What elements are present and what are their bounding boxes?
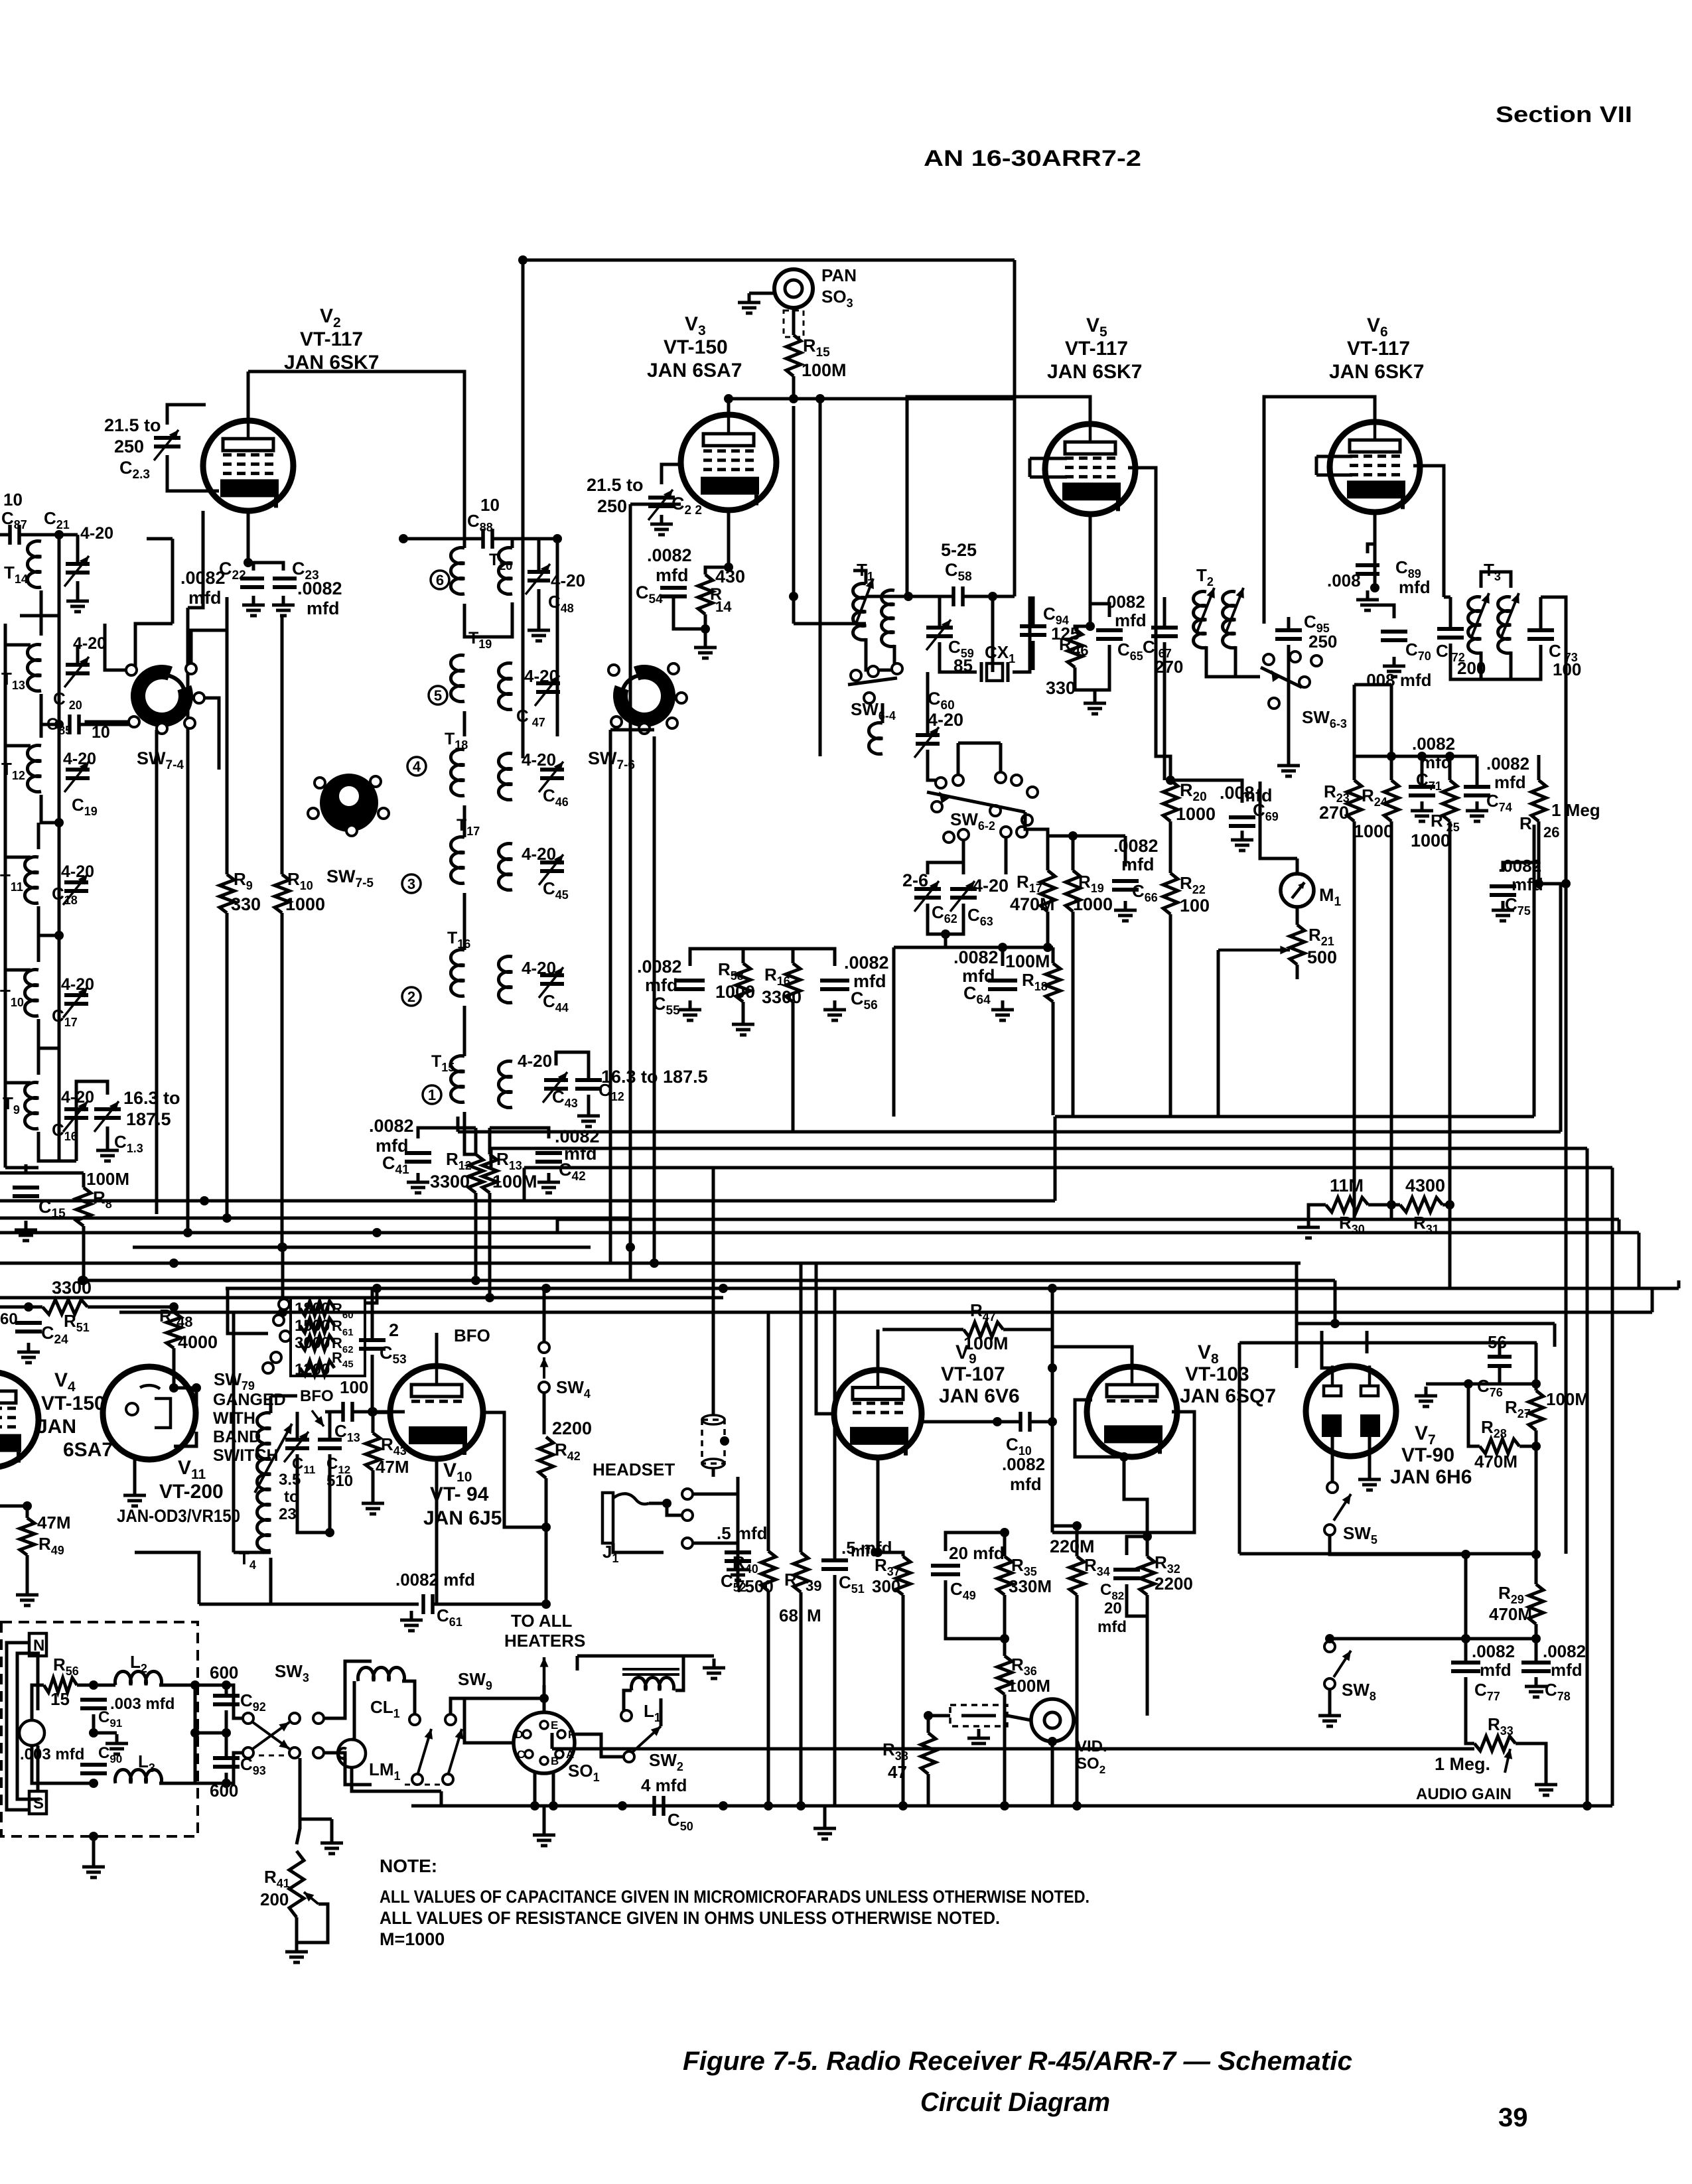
wire SO1 gnd	[543, 1806, 546, 1826]
switch SW3 blade 2	[253, 1722, 289, 1749]
svg-text:JAN 6H6: JAN 6H6	[1390, 1466, 1472, 1488]
wire R13 to bus	[488, 1193, 492, 1298]
svg-text:10: 10	[480, 495, 500, 515]
wire rail stub	[5, 969, 31, 972]
svg-text:N: N	[33, 1637, 44, 1655]
svg-text:4-20: 4-20	[928, 710, 963, 730]
dashed shield around R15 lead	[784, 310, 804, 337]
wire SO1 pin down 2	[552, 1773, 555, 1806]
svg-text:100M: 100M	[492, 1172, 537, 1192]
resistor R29	[1529, 1584, 1543, 1624]
svg-text:125: 125	[1051, 624, 1080, 644]
junction R38	[924, 1711, 933, 1720]
resistor R22	[1163, 873, 1178, 914]
wire R47 right	[1003, 1330, 1052, 1368]
contact SW3 b	[243, 1747, 253, 1758]
switch contact	[1290, 651, 1301, 662]
wire C76 top	[1498, 1343, 1502, 1357]
wire C2.3 down	[167, 455, 219, 491]
capacitor C78	[1521, 1663, 1551, 1671]
junction R10 bus	[277, 1243, 287, 1252]
wire SW3 down right	[324, 1753, 372, 1785]
tuning arrow T2 primary	[1196, 588, 1214, 634]
ground under C2 2	[650, 515, 673, 535]
wire riser x2392	[1586, 1148, 1589, 1806]
arrow BFO pointer	[312, 1410, 324, 1426]
wire R10 down	[281, 913, 284, 1247]
wire T3 top	[1481, 572, 1511, 588]
wire T20 top	[463, 531, 466, 548]
wire CL1 to SW9	[402, 1681, 415, 1714]
wire R27 to C76	[1500, 1383, 1536, 1386]
switch contact	[1299, 677, 1310, 687]
wire R16/C56 top	[743, 949, 835, 966]
wire J1 sleeve down	[693, 1543, 738, 1560]
svg-text:250: 250	[597, 496, 627, 516]
wire	[259, 1755, 285, 1757]
wire bus to bank	[228, 1288, 268, 1333]
wire vertical x950	[629, 504, 632, 1280]
svg-text:E: E	[551, 1719, 558, 1732]
wire vertical x236	[155, 730, 159, 1214]
switch SW2 arm	[632, 1726, 661, 1753]
switch SW7-6 arm	[622, 675, 668, 705]
contact SW bank	[263, 1363, 273, 1373]
wire x1496 down	[991, 596, 995, 672]
svg-text:4-20: 4-20	[522, 750, 556, 770]
wire SW6-2 feed 2	[999, 743, 1003, 775]
junction x283 bus	[183, 1228, 192, 1237]
capacitor C66	[1112, 881, 1139, 890]
junction R42/V10	[541, 1523, 551, 1532]
wire rail stub	[5, 1081, 31, 1085]
wire to C92	[195, 1684, 226, 1687]
wire V10 plate down	[483, 1412, 546, 1527]
wire R46/C65 bottom	[1075, 645, 1109, 690]
junction x426	[278, 1308, 287, 1317]
wire C67 top	[1163, 597, 1166, 628]
switch contact	[1027, 787, 1038, 797]
ground under SO1	[533, 1826, 555, 1846]
tube V11 VR150	[103, 1367, 196, 1460]
switch SW7-4 rotor	[138, 672, 186, 720]
transformer T15 coil	[451, 1056, 464, 1103]
tuning arrow C2.3	[154, 430, 178, 460]
capacitor	[540, 770, 564, 778]
svg-text:23: 23	[279, 1505, 297, 1523]
wire SW9 down	[440, 1791, 443, 1806]
wire R12 to bus	[474, 1193, 478, 1280]
svg-text:NOTE:: NOTE:	[380, 1856, 437, 1876]
wire C93 to SW3	[226, 1753, 243, 1783]
svg-text:47: 47	[888, 1762, 907, 1782]
svg-text:B: B	[551, 1755, 559, 1767]
connector SO2 (VID)	[1031, 1699, 1074, 1741]
wire SW3 up right	[324, 1661, 372, 1718]
junction C58 left	[904, 592, 913, 601]
coil T16 secondary	[498, 957, 512, 1003]
svg-text:3300: 3300	[52, 1278, 92, 1298]
wire rail T14-T13	[58, 535, 61, 724]
svg-text:60: 60	[0, 1310, 18, 1328]
wire rail	[58, 823, 61, 935]
transformer T11 coil	[25, 856, 38, 903]
wire R40 up	[767, 1312, 770, 1551]
capacitor C10	[1021, 1412, 1030, 1432]
ground under C21	[66, 592, 89, 612]
ground under R46	[1084, 694, 1106, 714]
wire R8 top stub	[82, 1173, 86, 1188]
wire T4 bottom	[269, 1558, 273, 1604]
capacitor C75	[1490, 886, 1516, 895]
resistor R30	[1326, 1197, 1368, 1212]
capacitor C12 bfo	[318, 1440, 342, 1448]
transformer T18 coil	[451, 750, 464, 796]
junction bus	[1048, 1284, 1057, 1293]
svg-text:15: 15	[50, 1689, 70, 1709]
junction C88 left	[399, 534, 408, 543]
wire C59 to CX1	[940, 642, 977, 672]
wire T10 bottom	[38, 1019, 59, 1048]
wire C62/C63 bottom	[928, 904, 963, 934]
resistor R46	[1068, 629, 1082, 667]
svg-text:VT-117: VT-117	[300, 328, 363, 350]
wire crystal to SO2	[1007, 1716, 1031, 1720]
resistor R35	[997, 1556, 1012, 1595]
capacitor C49	[931, 1566, 960, 1574]
wire C77 to R33	[1466, 1733, 1474, 1743]
contact SW5 bottom	[1324, 1525, 1335, 1535]
wire T16-T15	[463, 1006, 466, 1056]
resistor R25	[1443, 780, 1457, 821]
transformer T2 primary	[1194, 592, 1206, 648]
tuning arrow C48	[526, 564, 550, 594]
wire T13 top	[40, 617, 43, 636]
switch contact	[1269, 698, 1279, 709]
transformer T2 secondary	[1223, 592, 1235, 648]
wire SW6-2 to C63	[962, 840, 965, 862]
capacitor C23	[273, 579, 297, 587]
wire C49 top	[946, 1533, 1005, 1551]
bus wire y1838 right	[557, 1218, 1619, 1221]
wire R38 down	[927, 1774, 930, 1806]
junction C10 left	[993, 1417, 1002, 1426]
wire T2 bottom rail	[1354, 683, 1391, 687]
wire R22 down	[1169, 914, 1172, 1117]
wire SO1 pin down	[533, 1773, 537, 1806]
capacitor C59 (variable)	[926, 628, 953, 636]
svg-text:VT- 94: VT- 94	[430, 1483, 489, 1505]
ground under C41	[407, 1173, 429, 1193]
wire audio gain bus	[552, 1747, 1474, 1751]
wire M1 top stub	[1296, 858, 1299, 874]
contact SW7-6	[611, 717, 622, 727]
meter M1	[1281, 874, 1314, 907]
contact J1 sleeve	[682, 1538, 693, 1548]
contact SW3 e	[313, 1713, 324, 1724]
svg-text:mfd: mfd	[1399, 577, 1431, 597]
ground under R14	[694, 638, 717, 658]
junction R35/R36	[1000, 1634, 1009, 1643]
wire riser x690	[457, 1117, 460, 1132]
tuning arrow C43	[543, 1072, 567, 1103]
wire T9 bottom	[38, 1132, 76, 1161]
wire C66 top	[1124, 836, 1127, 866]
wire riser x790	[523, 1168, 526, 1201]
switch contact	[953, 775, 963, 785]
svg-text:100: 100	[340, 1377, 368, 1397]
contact SW bank	[271, 1352, 281, 1363]
junction R32 top	[1143, 1532, 1152, 1541]
junction R27/C76	[1531, 1379, 1541, 1389]
winding number 2	[402, 987, 421, 1006]
resistor R23	[1347, 780, 1362, 821]
ground under R43	[362, 1494, 384, 1514]
contact SW bank	[279, 1299, 289, 1310]
ground under C48	[528, 621, 550, 641]
transformer T3 secondary	[1498, 597, 1511, 653]
svg-text:.003 mfd: .003 mfd	[110, 1695, 175, 1713]
junction R48/V11	[169, 1383, 178, 1393]
ground under V7	[1358, 1470, 1381, 1490]
tuning arrow C46	[539, 762, 563, 792]
wire rail	[58, 724, 61, 823]
svg-text:20 mfd: 20 mfd	[949, 1543, 1005, 1563]
capacitor C22	[240, 579, 264, 587]
svg-text:470M: 470M	[1010, 894, 1055, 914]
svg-text:VT-117: VT-117	[1065, 338, 1128, 360]
switch SW7-4 arm	[140, 675, 185, 705]
wire SW6-2 down	[1005, 837, 1008, 874]
resistor R47	[963, 1322, 1003, 1337]
svg-text:1000: 1000	[285, 894, 325, 914]
transformer T17 coil	[451, 837, 464, 884]
svg-text:430: 430	[715, 567, 745, 586]
wire V2 pin down	[188, 511, 203, 608]
wire C74 top	[1476, 756, 1479, 787]
wire T18-T17	[463, 805, 466, 837]
wire R19 down	[1072, 912, 1075, 1115]
wire R21 bottom stub	[1296, 965, 1299, 979]
wire stub	[147, 537, 173, 541]
wire N to pickup	[36, 1656, 40, 1710]
transformer T16 coil	[451, 950, 464, 996]
junction R14 bottom	[701, 624, 710, 634]
contact SW4 top	[539, 1342, 549, 1353]
wire vertical x260	[171, 539, 175, 624]
svg-text:mfd: mfd	[1480, 1660, 1512, 1680]
contact SW3 d	[289, 1747, 300, 1758]
svg-text:100M: 100M	[802, 360, 847, 380]
ground under C64	[991, 1000, 1014, 1020]
svg-text:.0082: .0082	[1113, 836, 1159, 856]
svg-text:0082: 0082	[1107, 592, 1145, 612]
switch SW6-4 arm	[848, 678, 897, 685]
crystal rectifier (dashed box)	[950, 1705, 1007, 1726]
capacitor C74	[1464, 787, 1490, 795]
contact J1 ring	[682, 1510, 693, 1521]
wire R37 down	[902, 1595, 905, 1806]
svg-text:ALL VALUES OF CAPACITANCE GIVE: ALL VALUES OF CAPACITANCE GIVEN IN MICRO…	[380, 1887, 1090, 1907]
wire SW7-4 right	[191, 630, 227, 669]
tuning arrow C62	[914, 881, 939, 912]
wire C60 to SW6-2	[928, 770, 937, 780]
wire T1 to C58	[866, 595, 907, 598]
wire R48 to V11 pin	[174, 1388, 196, 1406]
switch SW6-3 arm	[1261, 667, 1302, 687]
junction V3 top	[724, 394, 733, 403]
svg-text:100M: 100M	[1007, 1676, 1050, 1696]
wire R42 down	[545, 1478, 548, 1604]
wire SW7-4 feed	[157, 723, 162, 730]
wire R15 to node	[792, 376, 796, 399]
switch contact	[932, 801, 942, 812]
contact SW3 a	[243, 1713, 253, 1724]
wire T15 bottom	[464, 1112, 476, 1154]
resistor R33 (audio gain pot)	[1474, 1736, 1516, 1751]
contact SW3 c	[289, 1713, 300, 1724]
ground under C55	[679, 1000, 701, 1020]
wire rail	[58, 935, 61, 1048]
contact SW7-5	[346, 825, 357, 836]
wire C67 down	[1163, 642, 1166, 780]
wire T2 to M1 rail	[1235, 675, 1260, 679]
wire R29 down	[1535, 1624, 1538, 1663]
wire T3 bottom	[1481, 651, 1511, 679]
svg-text:4-20: 4-20	[61, 975, 94, 994]
svg-text:100M: 100M	[1005, 951, 1050, 971]
wire V9 cathode down	[877, 1458, 880, 1552]
resistor R15	[786, 335, 801, 376]
switch SW5 arm	[1334, 1494, 1351, 1521]
capacitor C13	[343, 1402, 352, 1422]
junction R29/C78	[1531, 1634, 1541, 1643]
wire to C61	[199, 1603, 419, 1606]
wire T11 top	[37, 823, 40, 849]
svg-text:VT-150: VT-150	[664, 336, 728, 358]
capacitor	[154, 438, 180, 446]
wire T4 top	[269, 1396, 273, 1413]
wire C11 top	[296, 1412, 299, 1440]
wire V6 grid stub 1	[1316, 455, 1352, 458]
wire vertical x920	[609, 730, 612, 1263]
wire crystal top	[712, 1400, 715, 1415]
lamp LM1	[338, 1740, 366, 1767]
tube V4 JAN 6SA7 (clipped)	[0, 1372, 38, 1467]
svg-text:VID.: VID.	[1076, 1738, 1107, 1755]
wire R41 wiper loop	[297, 1904, 328, 1943]
wire to SW7-4	[135, 624, 173, 670]
junction heater	[539, 1694, 549, 1703]
ground on bottom bus	[813, 1819, 836, 1839]
svg-text:11M: 11M	[1330, 1176, 1364, 1195]
capacitor	[66, 770, 90, 778]
wire L1 to gnd	[683, 1655, 714, 1658]
winding number 5	[429, 686, 447, 705]
junction R15/V3 node	[789, 394, 798, 403]
wire x788 down	[522, 260, 525, 758]
ground SW3 area	[320, 1834, 343, 1854]
wire C21 down	[76, 581, 80, 592]
wire R32 to V8 cathode	[1124, 1457, 1147, 1536]
junction R43/C13	[368, 1407, 378, 1416]
wire C10 right	[1030, 1420, 1052, 1424]
svg-text:JAN 6V6: JAN 6V6	[939, 1385, 1020, 1407]
wire bank right top	[365, 1288, 377, 1303]
socket SO1	[514, 1712, 575, 1773]
transformer T19 coil	[451, 655, 464, 702]
tuning arrow C19	[64, 762, 89, 792]
junction bus	[719, 1284, 728, 1293]
resistor R56	[44, 1678, 77, 1692]
wire C53 down	[371, 1355, 374, 1412]
resistor R19	[1066, 870, 1080, 912]
inductor L2	[115, 1671, 162, 1685]
junction C85 left	[54, 720, 64, 729]
wire SW7-4 to C85	[86, 722, 134, 724]
capacitor C91	[80, 1700, 107, 1708]
svg-text:JAN 6SQ7: JAN 6SQ7	[1180, 1385, 1276, 1407]
wire V6 plate right	[1413, 466, 1444, 597]
bus wire y1956	[0, 1296, 723, 1300]
svg-text:220M: 220M	[1050, 1536, 1095, 1556]
contact SW7-6	[639, 723, 650, 734]
wire T20 top	[511, 539, 514, 548]
svg-text:M: M	[807, 1605, 821, 1625]
svg-text:200: 200	[260, 1889, 289, 1909]
resistor R14	[698, 575, 713, 614]
wire V5 plate to R20	[1128, 468, 1170, 780]
tube V9 JAN 6V6	[834, 1370, 922, 1458]
junction C76/gnd rail	[1464, 1379, 1473, 1389]
svg-text:A: A	[566, 1748, 574, 1761]
svg-text:6SA7: 6SA7	[63, 1439, 113, 1461]
wire R25 top	[1448, 756, 1452, 780]
wire C76 left	[1468, 1383, 1500, 1386]
bus wire y1706	[458, 1130, 1561, 1134]
resistor R49	[20, 1518, 35, 1555]
capacitor C41	[405, 1153, 431, 1162]
wire left rail x8	[4, 624, 7, 1168]
contact SW7-4	[126, 665, 137, 675]
wire to C22	[248, 563, 253, 571]
capacitor C52	[725, 1552, 751, 1561]
ground under C66	[1114, 901, 1137, 921]
capacitor C93	[213, 1758, 240, 1767]
tuning arrow C11	[284, 1432, 309, 1462]
junction C92/C93	[222, 1728, 231, 1738]
svg-text:mfd: mfd	[1512, 874, 1543, 894]
wire C94 top	[1032, 596, 1035, 626]
wire R32 bottom	[1146, 1595, 1149, 1616]
junction bus	[169, 1259, 178, 1268]
wire R10 up	[281, 617, 284, 874]
junction SW8	[1325, 1634, 1334, 1643]
wire R58 bottom	[742, 1002, 745, 1015]
junction R20 top	[1166, 776, 1175, 785]
svg-text:BFO: BFO	[454, 1326, 490, 1345]
wire T2 to R24	[1390, 685, 1393, 756]
wire left edge to R51	[0, 1306, 42, 1309]
junction audio node	[1461, 1550, 1470, 1559]
junction rail	[1330, 1319, 1340, 1328]
svg-text:250: 250	[114, 437, 144, 456]
wire x1529 to R15 node	[1013, 260, 1017, 399]
tuning arrow C59	[926, 620, 951, 650]
resistor R12	[468, 1154, 483, 1193]
wire V8 side	[1075, 1400, 1124, 1457]
svg-text:Circuit Diagram: Circuit Diagram	[920, 2088, 1110, 2117]
